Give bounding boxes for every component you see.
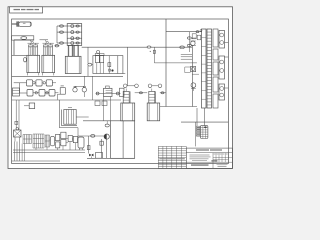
level instrument on left frame <box>13 88 20 96</box>
pump PA <box>73 86 85 92</box>
title field micro text <box>214 153 228 156</box>
pipe: transfer line <box>78 135 104 138</box>
pipe: feed drop to T1 <box>13 40 15 55</box>
pipe: main riser x166 <box>165 19 167 107</box>
equipment base box <box>111 121 135 159</box>
droplegs from columns <box>197 108 205 126</box>
wires: train links <box>50 138 79 145</box>
pipe: branch y48.7 with valve <box>180 46 185 49</box>
valve hanging below header <box>105 121 109 127</box>
mid vessel V5 <box>104 86 113 97</box>
pump P0 on U1 <box>97 50 100 53</box>
revision table grid <box>158 146 186 168</box>
drain valve (filled) in U1 <box>111 69 113 71</box>
nozzle boxes on column tops <box>192 34 201 40</box>
extruder E1 <box>12 22 32 27</box>
fittings at column top branch <box>196 30 202 33</box>
dropleg with valve and drain <box>87 136 90 154</box>
tank unit T2 with twin filters <box>42 40 55 75</box>
small box right of V5 <box>120 88 125 96</box>
fitting right of T2 <box>55 45 60 47</box>
small vessel V6 <box>78 137 84 150</box>
packaged unit U1 frame <box>93 56 125 74</box>
title field value dash <box>211 160 217 161</box>
twin filter vessel in U1 <box>95 54 104 74</box>
title block outline <box>186 148 232 168</box>
pipe into T1 from frame <box>12 54 27 56</box>
heater row 1 <box>14 80 56 86</box>
pump base pedestal <box>96 153 103 159</box>
feed pipe with pumps/valves <box>185 41 199 107</box>
stacked boxes D2 <box>56 134 60 148</box>
segmented jacket CC <box>213 29 218 108</box>
pipe between reactors <box>135 92 166 94</box>
valves on manifold inlet stubs <box>57 25 67 44</box>
valve on main header <box>147 46 151 48</box>
dosing box with label <box>58 85 66 99</box>
packed column CA <box>202 29 207 108</box>
pipe: branch to columns top <box>166 31 202 33</box>
bypass loop with strainer <box>150 47 156 63</box>
plate heat exchanger PHE <box>197 126 208 139</box>
wire: header drop to reactor pumps <box>127 47 129 86</box>
pipe rack line lower <box>12 99 121 101</box>
tray column CB <box>207 29 212 108</box>
wires: block legs to base <box>22 142 75 161</box>
box D5 <box>73 136 77 142</box>
reactor column R2 <box>147 84 162 121</box>
sheet background <box>8 7 233 169</box>
sheet title label box top-left <box>10 7 43 13</box>
exchanger unit CD2 <box>219 56 225 79</box>
exchanger unit CD1 <box>219 31 225 49</box>
filter box below rack <box>24 103 35 109</box>
exchanger unit CD3 <box>219 84 225 100</box>
agitated mixer M1 <box>14 128 22 142</box>
valves left of columns <box>187 32 196 52</box>
heater row 2 <box>20 83 59 96</box>
valve manifold VM1 <box>67 24 82 46</box>
sight glass on dropleg <box>88 47 93 76</box>
pump PB <box>82 76 86 97</box>
title bottom text <box>191 164 228 167</box>
wires: feeds down to mixer <box>15 100 19 130</box>
pipe: return line y62.9 <box>154 62 197 64</box>
pipe: main header <box>82 46 193 48</box>
stacked boxes D3 <box>61 132 66 146</box>
title description text <box>190 155 211 161</box>
baseline <box>87 157 135 159</box>
striped unit B3 <box>45 135 49 147</box>
wire: PHE to title block <box>195 122 197 146</box>
drain valve (bowtie) <box>89 154 93 159</box>
reactor column R1 <box>121 84 139 121</box>
small drum D1 <box>50 136 54 145</box>
plate block B2 <box>33 134 44 148</box>
title bar text <box>186 149 232 152</box>
wires: mixer legs to base <box>15 142 20 161</box>
valve on U1 riser <box>108 56 111 74</box>
stubs to right frame <box>225 43 229 89</box>
pipe: bottoms line <box>160 106 197 108</box>
pump circles on mid line <box>96 92 119 95</box>
box D4 <box>68 135 72 141</box>
stub lines to feed pipe <box>181 55 193 60</box>
pipe rack line upper <box>12 75 123 77</box>
pipe: bottom cross line <box>181 121 228 123</box>
valve V2 on T1 feed <box>24 58 27 62</box>
tank unit T1 with twin filters <box>27 40 40 75</box>
agitated tank T6 <box>59 100 88 137</box>
inner drawing frame <box>12 19 229 164</box>
feeder box below extruder <box>12 36 34 40</box>
pipe above T1/T2 <box>14 39 48 41</box>
plate block B1 <box>23 135 32 144</box>
title mid fields <box>186 153 232 169</box>
dropleg 2 with fitting <box>100 139 103 158</box>
pipe through mid vessel <box>96 93 121 95</box>
pump P2 <box>104 134 109 158</box>
tank unit T3 with twin filters <box>65 45 81 73</box>
wire: U1 leg to rack <box>92 76 94 100</box>
skid base rails <box>13 150 85 152</box>
pipe: center bottom header <box>83 97 111 121</box>
fittings below rack line <box>95 101 107 106</box>
base line left <box>12 160 60 162</box>
